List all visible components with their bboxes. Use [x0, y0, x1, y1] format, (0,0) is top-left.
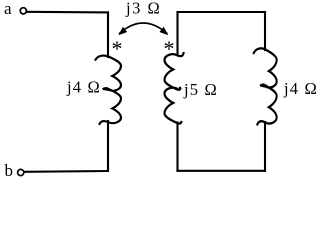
wire: left branch top vertical: [107, 12, 109, 57]
wire b: bottom-left horizontal: [24, 170, 108, 173]
wire: secondary loop bottom: [178, 170, 266, 172]
svg-text:j5 Ω: j5 Ω: [183, 80, 218, 99]
wire: secondary loop right top vertical: [264, 12, 266, 50]
coupling arrow j3 (double-headed arc): [120, 23, 167, 33]
inductor L3 j4 (right coil): [254, 48, 277, 124]
svg-text:j4 Ω: j4 Ω: [66, 77, 101, 96]
wire: secondary loop left top vertical: [176, 12, 178, 56]
terminal b circle: [18, 169, 24, 175]
terminal a circle: [20, 8, 26, 14]
wire a: top-left horizontal: [27, 11, 108, 14]
svg-text:a: a: [4, 0, 12, 18]
svg-text:*: *: [164, 36, 175, 61]
svg-text:j3 Ω: j3 Ω: [125, 0, 161, 18]
wire: secondary loop top: [178, 11, 266, 13]
wire: secondary loop left bottom vertical: [176, 123, 178, 171]
coupling arrowhead right: [159, 27, 168, 36]
wire: secondary loop right bottom vertical: [264, 122, 266, 171]
svg-text:*: *: [112, 36, 123, 61]
svg-text:j4 Ω: j4 Ω: [283, 79, 318, 98]
svg-text:b: b: [5, 161, 14, 180]
inductor L1 j4 (left coil): [96, 56, 122, 124]
inductor L2 j5 (middle coil): [165, 53, 184, 123]
wire: left branch bottom vertical: [107, 121, 109, 171]
coupling arrowhead left: [118, 27, 127, 36]
